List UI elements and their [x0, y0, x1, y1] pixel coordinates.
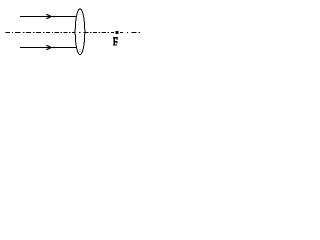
ray 2 (bottom incident ray) [20, 47, 77, 49]
optical axis (dash-dot center line) [6, 32, 140, 34]
background [0, 0, 150, 58]
focal point dot [115, 31, 118, 34]
label F [113, 37, 118, 46]
ray 1 (top incident ray) [20, 16, 77, 18]
lens (converging lens ellipse) [75, 9, 85, 55]
arrowhead of ray 2 [46, 45, 51, 49]
arrowhead of ray 1 [46, 14, 51, 18]
